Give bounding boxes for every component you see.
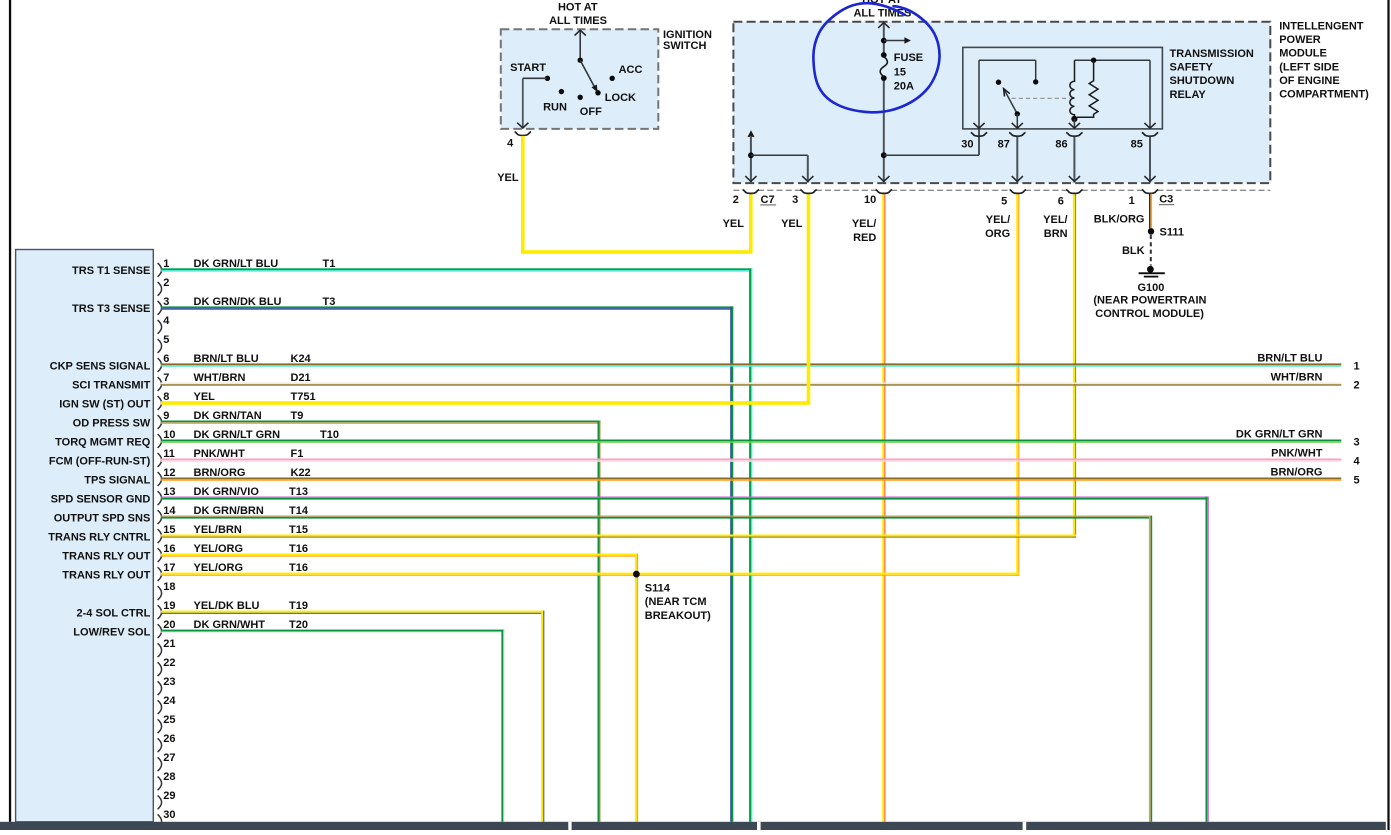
wire YEL/ORG vertical from C3-5 down to splice row <box>1016 194 1019 576</box>
wire YEL/BRN vertical from C3-6 down to pin15 row <box>1073 194 1076 538</box>
svg-text:CKP SENS SIGNAL: CKP SENS SIGNAL <box>50 360 151 372</box>
svg-text:DK GRN/LT BLU: DK GRN/LT BLU <box>194 258 279 270</box>
intelligent power module name label <box>1279 21 1369 101</box>
svg-text:K22: K22 <box>291 467 311 479</box>
ignition switch feed arrow up <box>575 30 586 60</box>
branch arrow right from feed node <box>881 37 911 44</box>
svg-text:(NEAR TCM: (NEAR TCM <box>645 596 707 608</box>
wire label YEL/BRN at C3 pin 6 <box>1043 214 1067 240</box>
svg-text:T13: T13 <box>289 486 308 498</box>
svg-text:10: 10 <box>163 429 175 441</box>
svg-text:C7: C7 <box>761 194 775 206</box>
svg-text:YEL: YEL <box>497 172 519 184</box>
svg-text:BRN: BRN <box>1044 228 1068 240</box>
hot at all times label (ignition feed) <box>549 2 607 28</box>
svg-text:YEL: YEL <box>781 218 803 230</box>
svg-text:YEL/ORG: YEL/ORG <box>194 543 244 555</box>
relay pin 85 internal conductor <box>1144 60 1155 129</box>
svg-text:2: 2 <box>733 194 739 206</box>
wire pin1 DK GRN/LT BLU T1 <box>161 268 752 822</box>
wire pin10 DK GRN/LT GRN T10 <box>161 440 1341 443</box>
right side wire end labels <box>1236 353 1323 479</box>
svg-text:YEL/DK BLU: YEL/DK BLU <box>194 600 260 612</box>
svg-text:4: 4 <box>163 315 170 327</box>
svg-text:21: 21 <box>163 638 175 650</box>
svg-text:30: 30 <box>163 809 175 821</box>
svg-text:TRANSMISSION: TRANSMISSION <box>1170 48 1254 60</box>
svg-text:16: 16 <box>163 543 175 555</box>
svg-text:RELAY: RELAY <box>1170 89 1207 101</box>
relay coil suppression resistor <box>1077 58 1098 118</box>
svg-text:RED: RED <box>853 232 876 244</box>
IPM internal feed stub at pin 2 column <box>745 130 756 182</box>
svg-text:TRANS RLY OUT: TRANS RLY OUT <box>62 550 150 562</box>
connector C7 label <box>760 194 776 206</box>
svg-text:YEL/: YEL/ <box>986 214 1010 226</box>
svg-text:14: 14 <box>163 505 176 517</box>
svg-text:(LEFT SIDE: (LEFT SIDE <box>1279 61 1339 73</box>
svg-text:D21: D21 <box>291 372 311 384</box>
wire pin6 BRN/LT BLU K24 <box>161 363 1341 366</box>
svg-text:TRS T3 SENSE: TRS T3 SENSE <box>72 303 150 315</box>
svg-text:SHUTDOWN: SHUTDOWN <box>1170 75 1235 87</box>
svg-text:MODULE: MODULE <box>1279 48 1327 60</box>
svg-text:YEL/BRN: YEL/BRN <box>194 524 242 536</box>
relay pin 85 terminal <box>1131 132 1159 150</box>
svg-text:6: 6 <box>1058 195 1064 207</box>
ignition switch contact OFF <box>578 95 603 118</box>
relay pin 86 internal conductor <box>1069 119 1080 129</box>
ignition switch rotor arm with arrow to LOCK <box>578 58 598 93</box>
relay pin 87 internal conductor <box>1012 114 1023 129</box>
pin arcs 1-30 of left connector <box>158 263 162 828</box>
wire pin8 YEL T751 to IPM pin3 <box>161 194 810 405</box>
svg-text:K24: K24 <box>291 353 312 365</box>
svg-text:PNK/WHT: PNK/WHT <box>194 448 246 460</box>
svg-text:YEL/ORG: YEL/ORG <box>194 562 244 574</box>
connector C3 label <box>1159 194 1174 206</box>
svg-text:BRN/ORG: BRN/ORG <box>194 467 246 479</box>
svg-text:INTELLENGENT: INTELLENGENT <box>1279 21 1364 33</box>
connector C3 pin 1 <box>1129 190 1159 208</box>
wire YEL from ignition switch pin 4 to IPM C7 pin 2 <box>497 136 752 254</box>
wire BLK from S111 to ground G100 <box>1122 235 1151 266</box>
svg-text:T20: T20 <box>289 619 308 631</box>
wire pin20 DK GRN/WHT T20 <box>161 630 505 822</box>
wire pin3 DK GRN/DK BLU T3 <box>161 306 733 821</box>
svg-text:BRN/LT BLU: BRN/LT BLU <box>1257 353 1322 365</box>
svg-text:TPS SIGNAL: TPS SIGNAL <box>84 474 150 486</box>
svg-text:HOT AT: HOT AT <box>558 2 598 14</box>
svg-text:START: START <box>510 62 546 74</box>
svg-text:2-4 SOL CTRL: 2-4 SOL CTRL <box>77 607 151 619</box>
svg-text:2: 2 <box>163 277 169 289</box>
svg-text:WHT/BRN: WHT/BRN <box>1271 372 1323 384</box>
splice S114 node <box>633 571 711 622</box>
svg-text:T751: T751 <box>291 391 316 403</box>
connector C7 pin 3 <box>792 190 817 206</box>
svg-text:87: 87 <box>998 138 1010 150</box>
svg-text:18: 18 <box>163 581 175 593</box>
ignition switch connector pin 4 <box>507 132 531 150</box>
relay pin 85 lead to C3-1 <box>1144 137 1155 183</box>
wire label YEL at C7 pin 2 <box>723 218 745 230</box>
svg-text:WHT/BRN: WHT/BRN <box>194 372 246 384</box>
svg-text:T19: T19 <box>289 600 308 612</box>
connector C7 pin 2 <box>733 190 759 206</box>
left connector box (transmission control module connector) <box>16 250 154 822</box>
svg-text:10: 10 <box>864 194 876 206</box>
hot at all times label (IPM feed) <box>853 0 911 19</box>
svg-text:BRN/ORG: BRN/ORG <box>1271 467 1323 479</box>
svg-text:20: 20 <box>163 619 175 631</box>
svg-text:LOW/REV SOL: LOW/REV SOL <box>73 626 150 638</box>
svg-text:11: 11 <box>163 448 175 460</box>
svg-text:OFF: OFF <box>580 106 602 118</box>
svg-text:OD PRESS SW: OD PRESS SW <box>73 417 151 429</box>
svg-text:5: 5 <box>1354 475 1360 487</box>
svg-text:3: 3 <box>1354 437 1360 449</box>
wire pin16 YEL/ORG T16 to splice S114 <box>161 554 638 575</box>
svg-text:(NEAR POWERTRAIN: (NEAR POWERTRAIN <box>1093 295 1206 307</box>
svg-text:BREAKOUT): BREAKOUT) <box>645 610 711 622</box>
svg-text:25: 25 <box>163 714 175 726</box>
intelligent power module box <box>733 22 1270 183</box>
wire label YEL at C7 pin 3 <box>781 218 803 230</box>
svg-text:YEL: YEL <box>194 391 216 403</box>
svg-text:3: 3 <box>792 194 798 206</box>
fuse 15 (20A) <box>880 52 923 93</box>
svg-text:17: 17 <box>163 562 175 574</box>
svg-text:T1: T1 <box>323 258 336 270</box>
svg-text:OF ENGINE: OF ENGINE <box>1279 75 1340 87</box>
svg-text:T10: T10 <box>320 429 339 441</box>
svg-text:TORQ MGMT REQ: TORQ MGMT REQ <box>55 436 151 448</box>
svg-text:DK GRN/DK BLU: DK GRN/DK BLU <box>194 296 282 308</box>
wire pin19 YEL/DK BLU T19 <box>161 611 544 822</box>
ignition switch START output wire to pin 4 <box>517 78 547 128</box>
svg-text:2: 2 <box>1354 380 1360 392</box>
svg-text:15: 15 <box>894 66 906 78</box>
ignition switch contact RUN <box>543 89 567 114</box>
svg-text:SAFETY: SAFETY <box>1170 62 1214 74</box>
wire pin9 DK GRN/TAN T9 <box>161 421 601 822</box>
svg-text:DK GRN/LT GRN: DK GRN/LT GRN <box>194 429 281 441</box>
svg-text:TRS T1 SENSE: TRS T1 SENSE <box>72 265 150 277</box>
svg-text:9: 9 <box>163 410 169 422</box>
wire label YEL/ORG at C3 pin 5 <box>985 214 1010 240</box>
svg-text:SWITCH: SWITCH <box>663 40 706 52</box>
svg-text:YEL/: YEL/ <box>852 218 876 230</box>
svg-text:SPD SENSOR GND: SPD SENSOR GND <box>51 493 151 505</box>
ignition switch box <box>501 29 659 129</box>
svg-text:S111: S111 <box>1160 226 1184 238</box>
wire pin11 PNK/WHT F1 <box>161 459 1341 462</box>
relay actuation dashed link <box>1012 97 1070 99</box>
svg-text:30: 30 <box>961 138 973 150</box>
ignition switch name label <box>663 29 712 52</box>
svg-text:TRANS RLY OUT: TRANS RLY OUT <box>62 569 150 581</box>
svg-text:RUN: RUN <box>543 102 567 114</box>
relay pin 30 internal conductor <box>973 60 1038 129</box>
svg-text:T16: T16 <box>289 543 308 555</box>
svg-text:24: 24 <box>163 695 176 707</box>
svg-text:86: 86 <box>1055 138 1067 150</box>
svg-text:ORG: ORG <box>985 228 1010 240</box>
svg-text:19: 19 <box>163 600 175 612</box>
svg-text:BLK/ORG: BLK/ORG <box>1094 213 1145 225</box>
svg-text:22: 22 <box>163 657 175 669</box>
transmission safety shutdown relay box <box>963 47 1163 128</box>
svg-text:FUSE: FUSE <box>894 52 923 64</box>
svg-text:85: 85 <box>1131 138 1143 150</box>
svg-text:1: 1 <box>1354 361 1360 373</box>
wire YEL/RED labels at pin 10 <box>852 218 876 244</box>
svg-text:DK GRN/VIO: DK GRN/VIO <box>194 486 260 498</box>
svg-text:LOCK: LOCK <box>605 92 636 104</box>
IPM bottom connector face dashed line <box>733 189 1270 191</box>
svg-text:T16: T16 <box>289 562 308 574</box>
bottom module bar (TCM connectors, cut off) <box>0 822 1386 830</box>
relay pin 86 terminal <box>1055 132 1082 150</box>
node at IPM feed to relay pin 30 branch <box>881 129 979 158</box>
right side destination numbers 1-5 <box>1354 361 1361 487</box>
connector C3 pin 5 <box>1001 190 1026 208</box>
ignition switch contact ACC <box>610 64 643 81</box>
connector C3 pin 6 <box>1058 190 1083 208</box>
svg-text:T14: T14 <box>289 505 309 517</box>
svg-text:COMPARTMENT): COMPARTMENT) <box>1279 88 1369 100</box>
svg-text:DK GRN/TAN: DK GRN/TAN <box>194 410 262 422</box>
svg-text:SCI TRANSMIT: SCI TRANSMIT <box>72 379 151 391</box>
svg-text:4: 4 <box>1354 456 1361 468</box>
svg-text:DK GRN/WHT: DK GRN/WHT <box>194 619 266 631</box>
svg-text:5: 5 <box>1001 195 1007 207</box>
svg-text:29: 29 <box>163 790 175 802</box>
relay pin 87 terminal <box>998 132 1026 150</box>
relay coil <box>1070 60 1150 122</box>
svg-text:ALL TIMES: ALL TIMES <box>549 15 607 27</box>
svg-text:12: 12 <box>163 467 175 479</box>
svg-text:BLK: BLK <box>1122 245 1145 257</box>
svg-text:5: 5 <box>163 334 169 346</box>
svg-text:15: 15 <box>163 524 175 536</box>
wire YEL/RED from IPM pin 10 down to TCM (vertical) <box>882 194 885 822</box>
wire pin12 BRN/ORG K22 <box>161 478 1341 481</box>
svg-text:DK GRN/BRN: DK GRN/BRN <box>194 505 264 517</box>
splice S111 node <box>1148 226 1184 238</box>
connector pin 10 <box>864 190 892 206</box>
ignition switch contact LOCK <box>595 90 636 104</box>
svg-text:OUTPUT SPD SNS: OUTPUT SPD SNS <box>54 512 151 524</box>
relay switch contact and arm <box>996 80 1020 117</box>
IPM internal node pin2 to pin3 branch <box>748 152 813 182</box>
relay pin 86 lead to C3-6 <box>1069 137 1080 183</box>
svg-text:PNK/WHT: PNK/WHT <box>1271 448 1323 460</box>
svg-text:13: 13 <box>163 486 175 498</box>
svg-text:7: 7 <box>163 372 169 384</box>
svg-text:FCM (OFF-RUN-ST): FCM (OFF-RUN-ST) <box>49 455 151 467</box>
svg-text:TRANS RLY CNTRL: TRANS RLY CNTRL <box>48 531 150 543</box>
svg-text:28: 28 <box>163 771 175 783</box>
pin numbers 1-30 <box>163 258 176 821</box>
svg-text:YEL: YEL <box>723 218 745 230</box>
svg-text:27: 27 <box>163 752 175 764</box>
signal name labels on left connector <box>48 265 151 638</box>
wire pin17 YEL/ORG T16 through splice S114 to C3-5 <box>161 573 1020 822</box>
svg-text:T3: T3 <box>323 296 336 308</box>
svg-text:YEL/: YEL/ <box>1043 214 1067 226</box>
svg-text:4: 4 <box>507 137 514 149</box>
wire pin13 DK GRN/VIO T13 <box>161 497 1209 822</box>
wire pin7 WHT/BRN D21 <box>161 382 1341 385</box>
ground G100 <box>1093 266 1206 320</box>
svg-text:8: 8 <box>163 391 169 403</box>
svg-text:BRN/LT BLU: BRN/LT BLU <box>194 353 259 365</box>
relay pin 87 lead to C3-5 <box>1012 137 1023 183</box>
wire BLK/ORG from C3 pin 1 to splice S111 <box>1094 194 1152 229</box>
svg-text:ACC: ACC <box>619 64 643 76</box>
svg-text:CONTROL MODULE): CONTROL MODULE) <box>1095 308 1204 320</box>
svg-text:6: 6 <box>163 353 169 365</box>
svg-text:20A: 20A <box>894 81 914 93</box>
svg-text:26: 26 <box>163 733 175 745</box>
relay name label <box>1170 48 1254 101</box>
svg-text:F1: F1 <box>291 448 304 460</box>
svg-text:3: 3 <box>163 296 169 308</box>
svg-text:T9: T9 <box>291 410 304 422</box>
svg-text:1: 1 <box>1129 195 1135 207</box>
svg-text:POWER: POWER <box>1279 34 1321 46</box>
hand drawn blue circle around fuse <box>813 3 939 112</box>
wire pin14 DK GRN/BRN T14 <box>161 516 1152 822</box>
relay pin 30 terminal <box>961 132 987 150</box>
ignition switch contact START <box>510 62 550 81</box>
IPM feed conductor with fuse (vertical at pin 10 column) <box>878 22 889 183</box>
svg-text:IGN SW (ST) OUT: IGN SW (ST) OUT <box>59 398 150 410</box>
wire pin15 YEL/BRN T15 to IPM relay pin 86 (C3-6) <box>161 535 1076 538</box>
svg-text:23: 23 <box>163 676 175 688</box>
svg-text:1: 1 <box>163 258 169 270</box>
svg-text:T15: T15 <box>289 524 308 536</box>
svg-text:S114: S114 <box>645 582 671 594</box>
svg-text:DK GRN/LT GRN: DK GRN/LT GRN <box>1236 429 1323 441</box>
svg-text:G100: G100 <box>1138 282 1165 294</box>
svg-text:C3: C3 <box>1159 194 1173 206</box>
wire color and circuit labels on left connector wires <box>194 258 339 631</box>
